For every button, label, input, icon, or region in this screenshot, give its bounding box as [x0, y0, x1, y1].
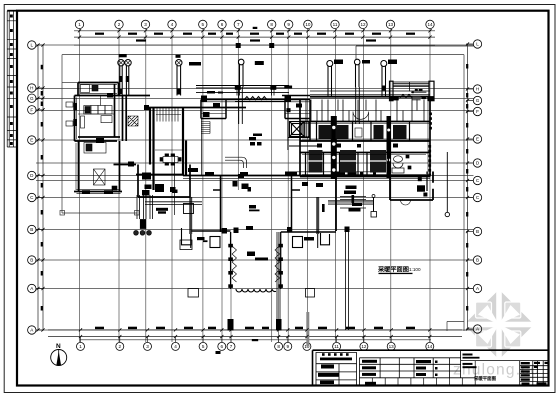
- right axis letters: [476, 42, 480, 332]
- corridor wall window chunks: [205, 172, 376, 176]
- right wing outer walls: [300, 97, 430, 177]
- riser labels: [119, 43, 397, 66]
- lobby labels: [249, 134, 262, 212]
- svg-text:采暖平面图: 采暖平面图: [377, 266, 409, 274]
- right wing top block: [382, 81, 434, 101]
- left dimension text dashes: [41, 65, 43, 311]
- pier columns mid: [180, 197, 318, 297]
- svg-text:E: E: [476, 137, 479, 142]
- bottom axis circles: [77, 342, 434, 350]
- central room closet lines: [201, 113, 310, 115]
- svg-text:7: 7: [237, 22, 240, 27]
- central room blobs: [188, 103, 302, 172]
- central rooms: [201, 100, 310, 142]
- top risers: [118, 59, 387, 96]
- left dimension lines: [38, 45, 43, 330]
- central riser drop: [239, 87, 360, 124]
- bedroom dividers row1: [317, 122, 410, 142]
- right circle stems: [466, 44, 473, 329]
- svg-text:13: 13: [389, 344, 395, 349]
- svg-text:11: 11: [334, 344, 339, 349]
- riser chunks: [119, 76, 181, 95]
- svg-text:4: 4: [171, 22, 174, 27]
- svg-text:H: H: [30, 86, 33, 91]
- svg-text:2: 2: [119, 344, 122, 349]
- unit party wall shaft left: [331, 116, 337, 179]
- left axis letters: [30, 43, 34, 333]
- left wing furniture: [78, 85, 138, 191]
- hall label blobs: [197, 237, 208, 242]
- plan text labels: [155, 184, 268, 261]
- svg-text:5: 5: [202, 22, 205, 27]
- svg-text:B: B: [476, 258, 479, 263]
- pier footing boxes: [182, 228, 330, 248]
- svg-text:12: 12: [360, 22, 366, 27]
- left circle stems: [36, 45, 44, 330]
- pier line extension: [306, 312, 309, 347]
- svg-text:9: 9: [287, 344, 290, 349]
- right wing closet partitions: [306, 97, 424, 122]
- entrance canopy: [196, 86, 289, 96]
- svg-text:B: B: [476, 229, 479, 234]
- svg-text:8: 8: [277, 344, 280, 349]
- svg-text:B: B: [30, 258, 33, 263]
- svg-text:9: 9: [287, 22, 290, 27]
- svg-text:4: 4: [174, 344, 177, 349]
- right axis circles: [473, 40, 481, 333]
- stair treads: [201, 122, 210, 134]
- east service pipe: [445, 152, 449, 217]
- svg-text:10: 10: [305, 22, 311, 27]
- lobby furniture cluster: [233, 174, 252, 192]
- wall label blobs right of hall: [302, 182, 323, 187]
- dining table upper: [160, 154, 181, 165]
- svg-text:F: F: [30, 108, 33, 113]
- mid-left risers: [134, 195, 153, 235]
- bathroom fixtures: [392, 155, 411, 173]
- central hall: [191, 176, 336, 232]
- svg-text:3: 3: [146, 344, 149, 349]
- dimension ticks: [36, 29, 469, 338]
- svg-text:1: 1: [78, 22, 81, 27]
- svg-text:B: B: [30, 227, 33, 232]
- unit party wall shaft right: [387, 116, 392, 178]
- left wing eave line: [62, 82, 78, 84]
- right wing bottom rooms: [336, 172, 433, 232]
- svg-text:采暖平面图: 采暖平面图: [473, 375, 497, 382]
- title block text blobs: [318, 353, 548, 385]
- corridor double line: [183, 119, 430, 179]
- right dimension text dashes: [466, 64, 468, 311]
- porch wall knots: [228, 244, 283, 288]
- beds row2: [309, 150, 387, 173]
- bottom axis numbers: [79, 344, 433, 349]
- right top circle arm: [356, 46, 473, 60]
- svg-text:H: H: [476, 87, 479, 92]
- watermark logo diamond: [464, 290, 534, 360]
- top axis circles: [75, 20, 434, 28]
- heating pipes: [145, 197, 366, 331]
- svg-text:8: 8: [270, 22, 273, 27]
- beds row1: [319, 125, 407, 139]
- svg-text:1:100: 1:100: [409, 267, 421, 272]
- kitchen fixture cluster: [142, 173, 178, 196]
- svg-text:E: E: [30, 138, 33, 143]
- pier upper box: [184, 204, 194, 214]
- bottom dimension lines: [48, 330, 462, 340]
- closet door arcs: [353, 112, 369, 122]
- svg-text:G: G: [30, 96, 34, 101]
- svg-text:14: 14: [427, 344, 433, 349]
- east wall window dashes: [428, 113, 431, 176]
- left stair treads: [155, 108, 183, 150]
- top dimension text dashes: [95, 27, 415, 42]
- window lines on outer walls: [76, 85, 430, 194]
- bottom circle stems: [81, 337, 430, 343]
- svg-text:2: 2: [118, 22, 121, 27]
- vertical grid lines: [80, 29, 431, 342]
- bay wall chunks: [201, 86, 292, 102]
- central bay: [201, 96, 310, 102]
- svg-text:5: 5: [202, 344, 205, 349]
- svg-text:L: L: [31, 43, 34, 48]
- hall corner piers: [222, 227, 293, 234]
- corridor door blobs: [216, 144, 399, 355]
- property boundary line: [60, 55, 464, 331]
- service shaft line: [174, 155, 176, 215]
- top dimension lines: [74, 31, 435, 45]
- svg-text:1: 1: [79, 344, 82, 349]
- bay wall knots: [234, 85, 277, 233]
- svg-text:6: 6: [221, 344, 224, 349]
- pipe top knot: [345, 227, 350, 233]
- right wing top wall extra line: [310, 90, 430, 92]
- title block: [313, 350, 549, 385]
- svg-text:11: 11: [333, 22, 338, 27]
- pipe labels: [156, 191, 362, 214]
- drawing title label: [377, 266, 421, 275]
- svg-text:13: 13: [388, 22, 394, 27]
- svg-text:L: L: [476, 42, 479, 47]
- top axis numbers: [78, 22, 433, 27]
- heating pipe run right: [328, 195, 377, 218]
- svg-text:7: 7: [230, 344, 233, 349]
- pipe valves: [249, 137, 361, 241]
- svg-text:F: F: [476, 109, 479, 114]
- left wing door blobs: [66, 94, 149, 194]
- elevator core: [287, 100, 320, 151]
- bottom dimension text dashes: [95, 327, 415, 342]
- svg-text:6: 6: [221, 22, 224, 27]
- svg-text:14: 14: [427, 22, 433, 27]
- horizontal grid lines: [36, 45, 474, 330]
- left wing walls: [74, 83, 186, 192]
- left margin strip: [7, 11, 17, 147]
- north arrow: [51, 343, 67, 366]
- svg-text:12: 12: [361, 344, 367, 349]
- left axis circles: [28, 41, 36, 334]
- lobby rug outline: [225, 157, 247, 168]
- bedroom dividers row2: [306, 153, 389, 177]
- right dimension line: [467, 44, 469, 329]
- svg-text:G: G: [476, 98, 480, 103]
- entrance porch: [231, 232, 281, 292]
- left wing corridor walls: [114, 108, 431, 198]
- svg-text:N: N: [56, 343, 61, 350]
- porch wall bottom bars: [228, 319, 282, 331]
- svg-text:3: 3: [144, 22, 147, 27]
